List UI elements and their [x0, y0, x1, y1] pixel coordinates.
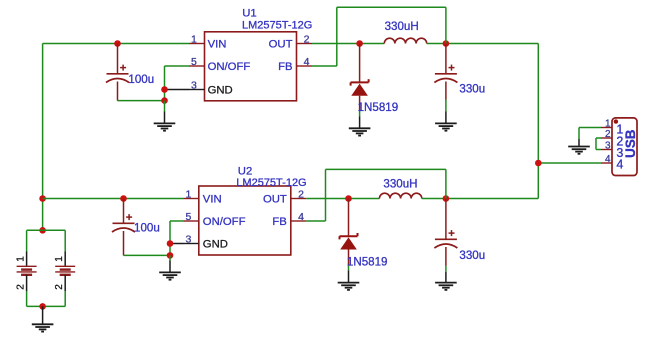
U2 pin 2 number	[298, 189, 304, 201]
wire C3 return	[124, 254, 171, 256]
wire U1 FB vertical	[336, 7, 338, 66]
svg-text:ON/OFF: ON/OFF	[203, 216, 246, 228]
U2 pin 3 GND stub	[184, 243, 199, 245]
U1 pin 4 number	[304, 56, 310, 68]
U1 pin FB name	[278, 61, 292, 73]
svg-text:2: 2	[15, 284, 26, 290]
wire U1 ground lead	[164, 101, 166, 124]
U2 pin FB name	[272, 216, 286, 228]
wire USB VBUS horizontal	[538, 162, 601, 164]
diode D2 1N5819	[340, 233, 358, 250]
capacitor C4 330u	[434, 230, 457, 248]
U1 pin ON/OFF name	[208, 61, 251, 73]
USB pin 1 number	[605, 118, 611, 129]
capacitor C1 leads	[117, 44, 119, 101]
svg-text:ON/OFF: ON/OFF	[208, 61, 251, 73]
svg-text:5: 5	[185, 211, 191, 223]
diode D1 1N5819	[351, 79, 369, 96]
wire battery left branch lower	[26, 275, 28, 307]
U1 pin 2 OUT stub	[297, 43, 313, 45]
USB pin 2 stub	[601, 137, 612, 139]
U1 pin 1 number	[191, 34, 197, 46]
ground USB shield	[568, 147, 590, 154]
svg-text:GND: GND	[208, 85, 233, 97]
U2 pin 3 number	[185, 234, 191, 246]
U1 pin 5 ON/OFF stub	[189, 65, 205, 67]
node U2 GND junction	[167, 240, 174, 247]
U1 pin 5 number	[191, 56, 197, 68]
U2 pin 2 OUT stub	[291, 198, 307, 200]
svg-text:330u: 330u	[459, 82, 485, 95]
wire U2 ground lead	[169, 255, 171, 272]
svg-text:1: 1	[191, 34, 197, 46]
node D2 junction	[345, 195, 352, 202]
battery BT1 pin 1 number	[15, 256, 26, 262]
node C3 return junction	[167, 252, 174, 259]
diode D2 lead lower	[348, 250, 350, 283]
wire row2 ON/OFF elbow	[170, 221, 184, 255]
U2 pin 4 FB stub	[291, 220, 307, 222]
C1 value label 100u	[128, 73, 154, 86]
USB pin 4 number	[605, 154, 611, 165]
node battery bottom junction	[39, 303, 46, 310]
USB inside pin number 3	[616, 146, 623, 160]
svg-text:100u: 100u	[128, 73, 154, 86]
ground D1	[349, 128, 371, 135]
wire battery top split	[27, 229, 66, 231]
wire right rail vertical	[537, 44, 539, 199]
U1 pin 4 FB stub	[297, 65, 313, 67]
svg-text:1: 1	[605, 118, 611, 129]
svg-text:OUT: OUT	[263, 194, 287, 206]
svg-text:100u: 100u	[134, 222, 160, 235]
U2 pin 5 ON/OFF stub	[184, 220, 199, 222]
U2 pin 5 number	[185, 211, 191, 223]
U1 pin 3 number	[191, 80, 197, 92]
svg-text:1: 1	[185, 189, 191, 201]
svg-text:330uH: 330uH	[383, 177, 417, 190]
U1 pin GND name	[208, 85, 233, 97]
node USB VBUS junction	[535, 160, 542, 167]
U2 value label LM2575T-12G	[236, 177, 306, 189]
capacitor C4 leads	[445, 199, 447, 283]
svg-text:USB: USB	[623, 129, 638, 158]
node D1 junction	[356, 40, 363, 47]
wire U2 GND pin to rail	[170, 243, 184, 245]
capacitor C3 100u	[112, 214, 135, 232]
wire row2 after L2	[422, 198, 539, 200]
U1 pin OUT name	[269, 39, 293, 51]
USB pin 3 number	[605, 140, 611, 151]
ground battery	[32, 324, 54, 331]
svg-text:1: 1	[54, 256, 65, 262]
op-amp regulator U2 body	[199, 186, 291, 255]
wire U2 FB vertical	[325, 169, 327, 221]
U2 pin GND name	[203, 239, 228, 251]
svg-text:330uH: 330uH	[385, 20, 419, 33]
capacitor C2 leads	[445, 44, 447, 124]
wire row1 OUT to diode	[312, 43, 384, 45]
wire left rail vertical	[42, 44, 44, 231]
svg-text:OUT: OUT	[269, 39, 293, 51]
node U1 GND junction	[161, 86, 168, 93]
C4 value label 330u	[459, 249, 485, 262]
U2 pin 4 number	[298, 211, 304, 223]
battery BT1 pin 2 number	[15, 284, 26, 290]
svg-text:FB: FB	[272, 216, 286, 228]
node C1 return junction	[161, 97, 168, 104]
ground D2	[338, 283, 360, 290]
wire U1 FB horizontal	[312, 65, 337, 67]
wire row1 after L1	[427, 43, 539, 45]
ground C2	[435, 123, 457, 130]
svg-text:2: 2	[298, 189, 304, 201]
wire battery ground lead	[42, 306, 44, 324]
ground U2	[159, 272, 181, 279]
svg-text:4: 4	[605, 154, 611, 165]
node L1 output junction	[443, 40, 450, 47]
wire row1 ON/OFF elbow	[165, 66, 190, 101]
wire row2 VIN horizontal	[43, 198, 184, 200]
svg-text:U2: U2	[238, 165, 252, 177]
USB pin 2 number	[605, 129, 611, 140]
U1 pin 1 VIN stub	[189, 43, 205, 45]
wire row1 VIN horizontal	[43, 43, 189, 45]
diode D1 lead upper	[359, 44, 361, 83]
USB connector J1 body	[612, 118, 637, 176]
svg-text:330u: 330u	[459, 249, 485, 262]
wire row1 top rail drop	[445, 7, 447, 43]
L2 value label 330uH	[383, 177, 417, 190]
U1 pin VIN name	[208, 39, 227, 51]
wire row1 top rail	[337, 6, 446, 8]
svg-text:LM2575T-12G: LM2575T-12G	[242, 19, 312, 31]
USB inside pin number 4	[616, 158, 623, 172]
D2 value label 1N5819	[347, 256, 388, 269]
C3 value label 100u	[134, 222, 160, 235]
svg-text:3: 3	[185, 234, 191, 246]
capacitor C1 100u	[106, 65, 129, 83]
wire battery bottom merge	[27, 305, 66, 307]
svg-text:3: 3	[605, 140, 611, 151]
svg-text:VIN: VIN	[203, 194, 222, 206]
U1 designator label	[242, 8, 256, 20]
svg-text:3: 3	[191, 80, 197, 92]
wire row2 OUT to diode	[306, 198, 379, 200]
svg-text:4: 4	[616, 158, 623, 172]
svg-text:2: 2	[304, 34, 310, 46]
U2 pin ON/OFF name	[203, 216, 246, 228]
D1 value label 1N5819	[358, 101, 399, 114]
wire battery right branch upper	[64, 230, 66, 266]
svg-text:GND: GND	[203, 239, 228, 251]
diode D2 lead upper	[348, 199, 350, 237]
ground C4	[435, 283, 457, 290]
USB inside pin number 2	[616, 134, 623, 148]
battery BT2 pin 2 number	[54, 284, 65, 290]
svg-text:VIN: VIN	[208, 39, 227, 51]
svg-text:4: 4	[304, 56, 310, 68]
wire C1 return	[118, 100, 165, 102]
diode D1 lead lower	[359, 96, 361, 129]
inductor L2 330uH	[379, 193, 421, 198]
node battery top junction	[39, 227, 46, 234]
node L2 output junction	[443, 195, 450, 202]
svg-text:FB: FB	[278, 61, 292, 73]
wire row2 top rail drop	[445, 169, 447, 198]
svg-text:5: 5	[191, 56, 197, 68]
wire USB pin2-pin3 loop	[596, 138, 601, 150]
svg-text:4: 4	[298, 211, 304, 223]
wire USB pin1 to ground	[579, 128, 601, 147]
capacitor C2 330u	[434, 65, 457, 83]
svg-text:2: 2	[605, 129, 611, 140]
C2 value label 330u	[459, 82, 485, 95]
op-amp regulator U1 body	[205, 32, 297, 101]
battery BT1 cells	[17, 266, 37, 275]
svg-text:1N5819: 1N5819	[347, 256, 388, 269]
U2 pin VIN name	[203, 194, 222, 206]
wire U1 GND pin to rail	[165, 89, 190, 91]
svg-text:1N5819: 1N5819	[358, 101, 399, 114]
node left rail row2 junction	[39, 195, 46, 202]
U1 pin 3 GND stub	[189, 89, 205, 91]
svg-text:U1: U1	[242, 8, 256, 20]
USB pin1 marker dot	[614, 119, 618, 123]
battery BT2 cells	[55, 266, 75, 275]
L1 value label 330uH	[385, 20, 419, 33]
USB pin 3 stub	[601, 149, 612, 151]
U2 pin OUT name	[263, 194, 287, 206]
inductor L1 330uH	[384, 38, 426, 43]
wire battery left branch upper	[26, 230, 28, 266]
node C3 tap junction	[120, 195, 127, 202]
ground U1	[154, 123, 176, 130]
wire battery right branch lower	[64, 275, 66, 307]
svg-text:LM2575T-12G: LM2575T-12G	[236, 177, 306, 189]
wire U2 FB horizontal	[306, 220, 325, 222]
USB label	[623, 129, 638, 158]
U2 pin 1 VIN stub	[184, 198, 199, 200]
USB inside pin number 1	[616, 122, 623, 136]
U1 value label LM2575T-12G	[242, 19, 312, 31]
capacitor C3 leads	[123, 199, 125, 256]
U2 designator label	[238, 165, 252, 177]
U1 pin 2 number	[304, 34, 310, 46]
U2 pin 1 number	[185, 189, 191, 201]
node C1 tap junction	[114, 40, 121, 47]
svg-text:2: 2	[54, 284, 65, 290]
USB pin 1 stub	[601, 127, 612, 129]
battery BT2 pin 1 number	[54, 256, 65, 262]
svg-text:1: 1	[15, 256, 26, 262]
USB pin 4 stub	[601, 162, 612, 164]
wire row2 top rail	[326, 168, 446, 170]
